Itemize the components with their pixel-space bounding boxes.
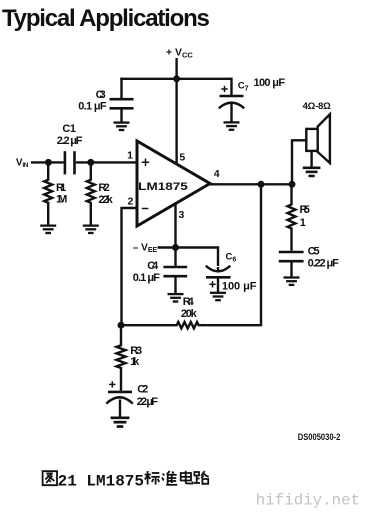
svg-text:1: 1 bbox=[127, 150, 133, 162]
svg-text:100 μF: 100 μF bbox=[222, 280, 257, 292]
svg-text:1k: 1k bbox=[130, 356, 140, 368]
svg-text:C5: C5 bbox=[308, 245, 320, 257]
svg-text:R5: R5 bbox=[300, 204, 310, 216]
svg-text:C4: C4 bbox=[147, 260, 159, 272]
svg-text:Typical Applications: Typical Applications bbox=[2, 5, 210, 32]
svg-text:DS005030-2: DS005030-2 bbox=[298, 432, 341, 442]
svg-text:C7: C7 bbox=[238, 81, 249, 93]
svg-text:R2: R2 bbox=[98, 182, 109, 194]
svg-text:C1: C1 bbox=[62, 123, 76, 135]
svg-text:R4: R4 bbox=[183, 296, 195, 308]
svg-text:LM1875: LM1875 bbox=[138, 181, 188, 193]
svg-text:100 μF: 100 μF bbox=[254, 77, 286, 89]
svg-text:– VEE: – VEE bbox=[133, 242, 158, 254]
svg-text:0.22 μF: 0.22 μF bbox=[308, 258, 339, 270]
svg-text:20k: 20k bbox=[181, 308, 198, 320]
svg-text:5: 5 bbox=[179, 151, 185, 163]
svg-text:R1: R1 bbox=[56, 182, 66, 194]
svg-text:C6: C6 bbox=[226, 251, 237, 263]
svg-text:IN: IN bbox=[22, 162, 28, 169]
svg-text:4Ω-8Ω: 4Ω-8Ω bbox=[303, 101, 332, 112]
svg-text:22k: 22k bbox=[98, 194, 113, 206]
svg-text:1: 1 bbox=[300, 217, 306, 229]
svg-text:+ VCC: + VCC bbox=[166, 47, 193, 60]
svg-text:2.2 μF: 2.2 μF bbox=[57, 135, 83, 147]
svg-text:21 LM1875: 21 LM1875 bbox=[58, 472, 144, 490]
svg-text:C2: C2 bbox=[137, 384, 148, 396]
svg-text:0.1 μF: 0.1 μF bbox=[78, 101, 107, 113]
svg-text:3: 3 bbox=[178, 209, 184, 221]
svg-text:2: 2 bbox=[127, 196, 133, 208]
svg-text:hifidiy.net: hifidiy.net bbox=[256, 492, 360, 510]
svg-text:22 μF: 22 μF bbox=[137, 396, 158, 408]
svg-text:4: 4 bbox=[214, 168, 220, 180]
svg-text:C3: C3 bbox=[96, 89, 106, 101]
svg-text:0.1 μF: 0.1 μF bbox=[133, 272, 160, 284]
svg-text:1M: 1M bbox=[56, 193, 67, 205]
